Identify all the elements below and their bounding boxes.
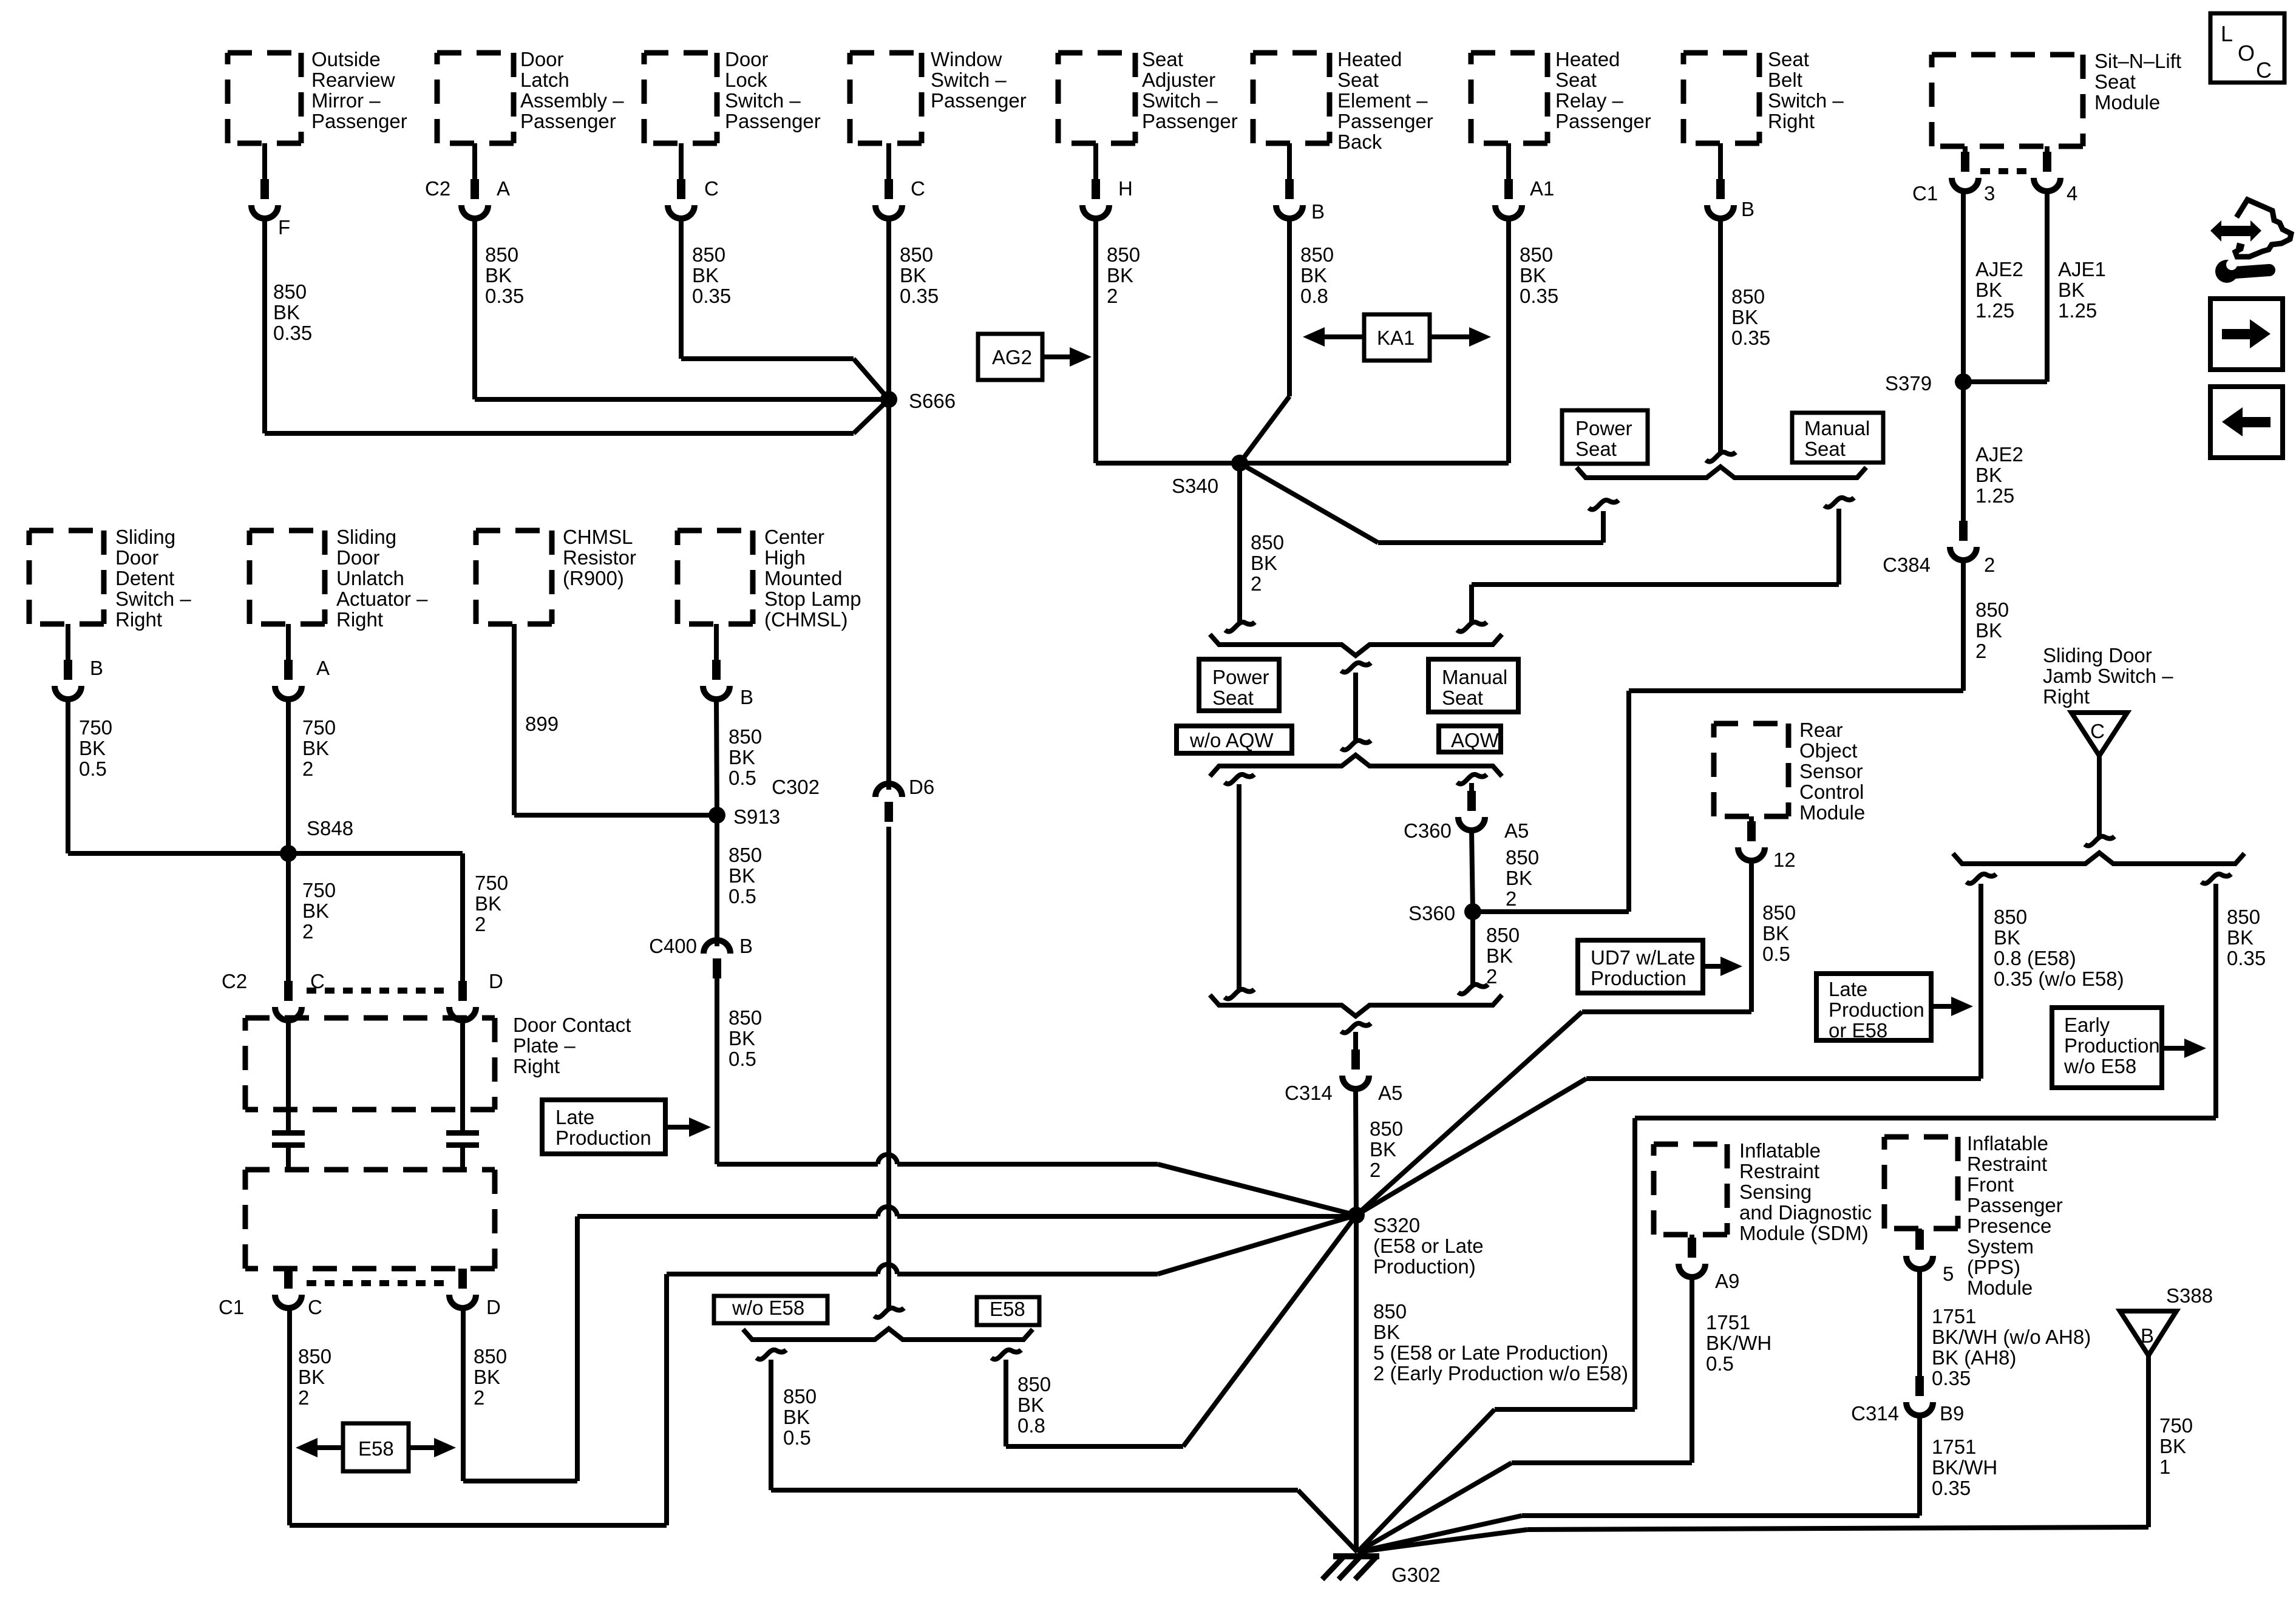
svg-text:0.8: 0.8 [1300, 285, 1328, 307]
svg-text:BK: BK [1975, 619, 2002, 642]
svg-text:A9: A9 [1715, 1270, 1739, 1292]
svg-text:1.25: 1.25 [2058, 299, 2097, 322]
svg-text:Switch –: Switch – [1142, 89, 1218, 112]
svg-text:C314: C314 [1851, 1402, 1899, 1425]
svg-text:Detent: Detent [115, 567, 174, 589]
svg-text:2: 2 [475, 913, 486, 935]
svg-text:BK/WH: BK/WH [1706, 1332, 1771, 1354]
svg-text:Switch –: Switch – [115, 588, 191, 610]
svg-text:Seat: Seat [1442, 686, 1483, 709]
svg-text:Front: Front [1967, 1173, 2014, 1196]
svg-text:A: A [497, 177, 510, 200]
svg-text:BK: BK [475, 892, 501, 915]
svg-text:850: 850 [1506, 846, 1539, 869]
svg-text:Object: Object [1799, 739, 1857, 762]
svg-text:Lock: Lock [725, 69, 767, 91]
svg-text:Restraint: Restraint [1739, 1160, 1819, 1182]
svg-text:Right: Right [115, 608, 162, 631]
svg-text:850: 850 [1975, 598, 2009, 621]
svg-text:A5: A5 [1378, 1082, 1402, 1104]
svg-text:Presence: Presence [1967, 1215, 2051, 1237]
svg-text:0.35: 0.35 [1932, 1367, 1971, 1389]
svg-text:S360: S360 [1408, 902, 1455, 924]
svg-text:D6: D6 [909, 776, 934, 798]
svg-text:B: B [1311, 200, 1325, 223]
svg-text:Resistor: Resistor [563, 546, 636, 569]
svg-text:Door: Door [115, 546, 159, 569]
svg-text:Power: Power [1575, 417, 1632, 439]
svg-text:BK: BK [302, 900, 329, 922]
svg-text:C: C [308, 1296, 322, 1318]
svg-text:Seat: Seat [1768, 48, 1809, 70]
svg-text:Door: Door [520, 48, 564, 70]
svg-text:B: B [90, 657, 103, 679]
svg-text:Production: Production [555, 1127, 651, 1149]
svg-text:Door: Door [336, 546, 380, 569]
svg-text:BK: BK [900, 264, 926, 286]
svg-text:BK: BK [729, 864, 755, 887]
svg-text:Module (SDM): Module (SDM) [1739, 1222, 1869, 1244]
svg-text:Right: Right [2043, 685, 2090, 708]
svg-text:S379: S379 [1885, 372, 1932, 395]
svg-text:0.5: 0.5 [729, 1048, 756, 1070]
svg-text:2: 2 [302, 920, 313, 943]
svg-text:High: High [764, 546, 806, 569]
svg-text:5: 5 [1943, 1263, 1954, 1285]
svg-text:BK: BK [1017, 1394, 1044, 1416]
svg-text:Seat: Seat [1142, 48, 1183, 70]
svg-text:BK: BK [1370, 1138, 1396, 1161]
svg-text:2: 2 [474, 1386, 484, 1409]
svg-text:Jamb Switch –: Jamb Switch – [2043, 665, 2173, 687]
svg-text:AJE2: AJE2 [1975, 258, 2023, 280]
svg-text:2: 2 [1370, 1159, 1381, 1181]
svg-text:BK: BK [1107, 264, 1133, 286]
svg-text:Actuator –: Actuator – [336, 588, 428, 610]
svg-text:Door: Door [725, 48, 769, 70]
svg-text:BK: BK [1506, 867, 1532, 889]
svg-text:1751: 1751 [1932, 1436, 1976, 1458]
svg-text:Sliding: Sliding [115, 526, 175, 548]
svg-text:w/o E58: w/o E58 [2063, 1055, 2136, 1077]
svg-text:850: 850 [1486, 924, 1520, 946]
svg-text:S340: S340 [1172, 475, 1218, 497]
svg-text:E58: E58 [990, 1298, 1025, 1320]
svg-text:Seat: Seat [1804, 438, 1846, 460]
svg-text:BK: BK [302, 737, 329, 759]
svg-text:0.5: 0.5 [79, 758, 107, 780]
svg-text:B: B [1741, 198, 1754, 220]
svg-text:0.35: 0.35 [485, 285, 524, 307]
svg-text:750: 750 [79, 716, 112, 739]
svg-text:850: 850 [1994, 906, 2027, 928]
svg-text:C2: C2 [425, 177, 450, 200]
svg-text:Relay –: Relay – [1555, 89, 1624, 112]
svg-text:Element –: Element – [1337, 89, 1428, 112]
svg-text:C: C [310, 970, 325, 992]
svg-text:C384: C384 [1883, 554, 1931, 576]
svg-text:Manual: Manual [1442, 666, 1507, 688]
svg-text:C302: C302 [772, 776, 820, 798]
svg-text:BK (AH8): BK (AH8) [1932, 1346, 2016, 1369]
svg-text:Control: Control [1799, 781, 1864, 803]
svg-text:850: 850 [1300, 243, 1334, 266]
svg-text:BK: BK [2227, 926, 2254, 949]
svg-text:Switch –: Switch – [931, 69, 1007, 91]
svg-text:Sensing: Sensing [1739, 1181, 1812, 1203]
svg-text:AQW: AQW [1451, 729, 1500, 751]
svg-text:2: 2 [298, 1386, 309, 1409]
svg-text:0.35: 0.35 [692, 285, 731, 307]
svg-text:850: 850 [1107, 243, 1140, 266]
svg-text:BK: BK [1373, 1321, 1400, 1343]
svg-text:0.5: 0.5 [1762, 943, 1790, 965]
svg-text:Door Contact: Door Contact [513, 1014, 631, 1036]
svg-text:S388: S388 [2166, 1284, 2213, 1307]
svg-text:Restraint: Restraint [1967, 1153, 2047, 1175]
svg-text:Seat: Seat [1212, 686, 1254, 709]
svg-text:D: D [486, 1296, 501, 1318]
svg-text:750: 750 [2159, 1414, 2193, 1437]
svg-text:B9: B9 [1940, 1402, 1964, 1425]
svg-text:BK: BK [1975, 464, 2002, 486]
svg-text:KA1: KA1 [1377, 327, 1415, 349]
svg-text:850: 850 [2227, 906, 2260, 928]
svg-text:Back: Back [1337, 131, 1382, 153]
svg-text:2 (Early Production w/o E58): 2 (Early Production w/o E58) [1373, 1362, 1628, 1385]
svg-text:Heated: Heated [1337, 48, 1402, 70]
svg-text:850: 850 [692, 243, 725, 266]
svg-text:BK: BK [1486, 944, 1513, 967]
svg-text:S913: S913 [733, 805, 780, 828]
svg-text:UD7 w/Late: UD7 w/Late [1591, 946, 1695, 969]
svg-text:0.35: 0.35 [273, 322, 312, 344]
svg-text:(R900): (R900) [563, 567, 624, 589]
svg-text:O: O [2238, 41, 2255, 66]
svg-text:BK: BK [729, 746, 755, 768]
svg-text:0.35: 0.35 [1731, 327, 1770, 349]
svg-text:Plate –: Plate – [513, 1034, 576, 1057]
svg-text:850: 850 [1731, 285, 1765, 308]
svg-text:Switch –: Switch – [1768, 89, 1844, 112]
svg-text:850: 850 [729, 725, 762, 748]
svg-text:w/o E58: w/o E58 [732, 1297, 804, 1319]
svg-text:Sit–N–Lift: Sit–N–Lift [2094, 50, 2181, 72]
svg-text:Production): Production) [1373, 1255, 1476, 1278]
svg-text:Window: Window [931, 48, 1002, 70]
svg-text:BK/WH: BK/WH [1932, 1456, 1997, 1479]
svg-text:BK: BK [298, 1366, 325, 1388]
svg-text:BK: BK [1520, 264, 1546, 286]
svg-text:5 (E58 or Late Production): 5 (E58 or Late Production) [1373, 1341, 1608, 1364]
svg-text:0.35: 0.35 [1932, 1477, 1971, 1499]
svg-text:750: 750 [302, 879, 336, 901]
svg-text:Module: Module [2094, 91, 2160, 114]
svg-text:S666: S666 [909, 390, 956, 412]
svg-text:850: 850 [474, 1345, 507, 1368]
svg-text:850: 850 [1370, 1117, 1403, 1140]
svg-text:850: 850 [900, 243, 933, 266]
svg-text:Module: Module [1967, 1276, 2033, 1299]
svg-text:Sensor: Sensor [1799, 760, 1863, 782]
svg-text:0.8: 0.8 [1017, 1414, 1045, 1437]
svg-text:(PPS): (PPS) [1967, 1256, 2020, 1278]
svg-text:0.35: 0.35 [2227, 947, 2266, 969]
svg-text:4: 4 [2067, 182, 2077, 205]
svg-text:750: 750 [475, 872, 508, 894]
svg-text:Passenger: Passenger [311, 110, 407, 132]
svg-text:1.25: 1.25 [1975, 299, 2014, 322]
svg-text:System: System [1967, 1235, 2034, 1258]
svg-text:Power: Power [1212, 666, 1269, 688]
svg-text:BK: BK [1731, 306, 1758, 328]
svg-text:BK: BK [1994, 926, 2020, 949]
svg-text:BK: BK [79, 737, 106, 759]
svg-text:Seat: Seat [2094, 70, 2136, 93]
svg-text:Passenger: Passenger [725, 110, 821, 132]
svg-text:B: B [740, 686, 753, 708]
svg-text:BK: BK [1975, 279, 2002, 301]
svg-text:Adjuster: Adjuster [1142, 69, 1215, 91]
svg-text:Switch –: Switch – [725, 89, 801, 112]
svg-text:2: 2 [1251, 572, 1262, 595]
svg-text:850: 850 [1373, 1300, 1407, 1323]
svg-text:2: 2 [1984, 554, 1995, 576]
svg-text:Sliding Door: Sliding Door [2043, 644, 2152, 666]
svg-text:0.35: 0.35 [1520, 285, 1558, 307]
svg-text:S320: S320 [1373, 1214, 1420, 1236]
svg-text:Heated: Heated [1555, 48, 1620, 70]
svg-text:Stop Lamp: Stop Lamp [764, 588, 861, 610]
svg-text:Seat: Seat [1575, 438, 1617, 460]
svg-text:Center: Center [764, 526, 824, 548]
svg-text:AJE1: AJE1 [2058, 258, 2106, 280]
svg-text:0.8 (E58): 0.8 (E58) [1994, 947, 2076, 969]
svg-text:Right: Right [336, 608, 383, 631]
svg-text:Passenger: Passenger [1967, 1194, 2063, 1216]
svg-text:Rearview: Rearview [311, 69, 395, 91]
svg-text:C2: C2 [222, 970, 247, 992]
svg-text:A5: A5 [1504, 819, 1529, 842]
svg-text:B: B [739, 935, 753, 957]
svg-text:850: 850 [1520, 243, 1553, 266]
svg-text:BK: BK [729, 1027, 755, 1049]
svg-text:C400: C400 [649, 935, 697, 957]
svg-text:2: 2 [1975, 640, 1986, 662]
svg-text:Late: Late [555, 1106, 594, 1128]
svg-text:0.5: 0.5 [729, 767, 756, 789]
svg-text:850: 850 [1017, 1373, 1051, 1395]
svg-text:1: 1 [2159, 1456, 2170, 1478]
svg-text:(E58 or Late: (E58 or Late [1373, 1235, 1484, 1257]
svg-text:A1: A1 [1530, 177, 1554, 200]
svg-text:C: C [911, 177, 925, 200]
svg-text:D: D [489, 970, 503, 992]
svg-text:C: C [2090, 720, 2105, 742]
svg-text:C1: C1 [219, 1296, 244, 1318]
svg-text:B: B [2141, 1324, 2154, 1347]
svg-text:BK: BK [1762, 922, 1789, 944]
svg-text:1.25: 1.25 [1975, 484, 2014, 507]
svg-text:H: H [1118, 177, 1133, 200]
svg-text:w/o AQW: w/o AQW [1189, 729, 1274, 751]
svg-text:Mounted: Mounted [764, 567, 842, 589]
svg-text:0.5: 0.5 [729, 885, 756, 907]
svg-text:AG2: AG2 [992, 346, 1032, 368]
svg-text:850: 850 [1762, 901, 1796, 924]
svg-text:L: L [2221, 21, 2233, 46]
svg-text:BK: BK [2058, 279, 2085, 301]
svg-text:Passenger: Passenger [1337, 110, 1433, 132]
svg-text:CHMSL: CHMSL [563, 526, 633, 548]
svg-text:A: A [316, 657, 330, 679]
svg-text:C360: C360 [1404, 819, 1452, 842]
svg-text:Production: Production [2064, 1034, 2160, 1057]
svg-text:and Diagnostic: and Diagnostic [1739, 1201, 1872, 1224]
svg-text:BK/WH (w/o AH8): BK/WH (w/o AH8) [1932, 1326, 2091, 1348]
svg-text:G302: G302 [1391, 1564, 1441, 1586]
svg-text:BK: BK [2159, 1435, 2186, 1457]
svg-text:0.35 (w/o E58): 0.35 (w/o E58) [1994, 968, 2124, 990]
svg-text:12: 12 [1773, 849, 1796, 871]
svg-text:0.35: 0.35 [900, 285, 939, 307]
svg-text:850: 850 [485, 243, 518, 266]
svg-text:Sliding: Sliding [336, 526, 396, 548]
svg-text:Production: Production [1829, 998, 1924, 1021]
svg-text:1751: 1751 [1706, 1311, 1750, 1334]
svg-text:S848: S848 [307, 817, 353, 839]
svg-text:850: 850 [273, 280, 307, 303]
svg-text:BK: BK [1300, 264, 1327, 286]
svg-text:C314: C314 [1285, 1082, 1333, 1104]
svg-text:2: 2 [1107, 285, 1118, 307]
svg-text:Mirror –: Mirror – [311, 89, 381, 112]
svg-text:Right: Right [513, 1055, 560, 1077]
svg-text:Early: Early [2064, 1014, 2110, 1036]
svg-text:Passenger: Passenger [1142, 110, 1238, 132]
svg-text:Outside: Outside [311, 48, 381, 70]
svg-text:Production: Production [1591, 967, 1686, 989]
svg-text:Late: Late [1829, 978, 1867, 1000]
svg-text:Belt: Belt [1768, 69, 1802, 91]
svg-text:E58: E58 [358, 1437, 394, 1460]
svg-text:0.5: 0.5 [1706, 1352, 1734, 1375]
svg-text:2: 2 [1506, 887, 1517, 910]
svg-text:3: 3 [1984, 182, 1995, 205]
svg-text:BK: BK [474, 1366, 500, 1388]
svg-text:Passenger: Passenger [931, 89, 1027, 112]
svg-text:Latch: Latch [520, 69, 569, 91]
svg-text:C1: C1 [1912, 182, 1938, 205]
svg-text:or E58: or E58 [1829, 1019, 1887, 1042]
svg-text:(CHMSL): (CHMSL) [764, 608, 848, 631]
svg-text:Passenger: Passenger [1555, 110, 1651, 132]
svg-text:750: 750 [302, 716, 336, 739]
svg-text:Module: Module [1799, 801, 1865, 824]
svg-text:Inflatable: Inflatable [1739, 1139, 1821, 1162]
svg-text:C: C [704, 177, 719, 200]
svg-text:Unlatch: Unlatch [336, 567, 404, 589]
svg-text:0.5: 0.5 [783, 1426, 811, 1449]
svg-text:Right: Right [1768, 110, 1815, 132]
svg-text:899: 899 [525, 713, 559, 735]
svg-text:Seat: Seat [1337, 69, 1379, 91]
svg-text:850: 850 [298, 1345, 331, 1368]
svg-text:BK: BK [273, 301, 300, 324]
svg-text:2: 2 [302, 758, 313, 780]
svg-text:AJE2: AJE2 [1975, 443, 2023, 466]
svg-text:BK: BK [783, 1406, 810, 1428]
svg-text:BK: BK [1251, 552, 1277, 574]
svg-text:850: 850 [1251, 531, 1284, 554]
svg-text:Passenger: Passenger [520, 110, 616, 132]
svg-text:Assembly –: Assembly – [520, 89, 624, 112]
svg-text:850: 850 [729, 844, 762, 866]
svg-text:850: 850 [783, 1385, 817, 1408]
svg-text:850: 850 [729, 1006, 762, 1029]
svg-text:Manual: Manual [1804, 417, 1870, 439]
svg-text:C: C [2256, 58, 2272, 83]
svg-text:Inflatable: Inflatable [1967, 1132, 2048, 1154]
svg-text:Rear: Rear [1799, 719, 1843, 741]
svg-text:1751: 1751 [1932, 1305, 1976, 1327]
svg-text:BK: BK [692, 264, 719, 286]
svg-text:2: 2 [1486, 965, 1497, 988]
svg-text:Seat: Seat [1555, 69, 1597, 91]
svg-text:BK: BK [485, 264, 512, 286]
svg-text:F: F [278, 216, 290, 239]
